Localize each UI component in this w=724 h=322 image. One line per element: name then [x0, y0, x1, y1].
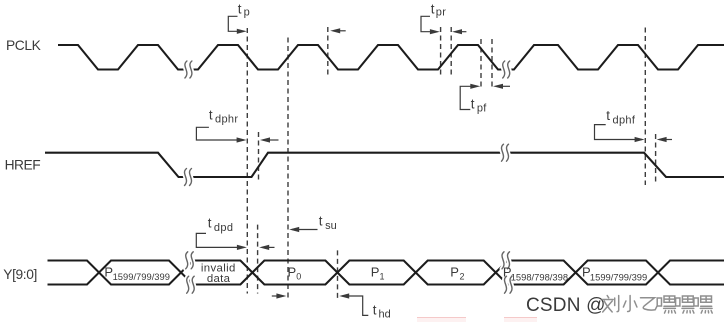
t_pf right arrow — [496, 85, 510, 87]
svg-text:dphr: dphr — [215, 114, 238, 126]
dashed line t_p right (x=327.8) — [327, 27, 329, 77]
Y[9:0] bus rail B (starts bottom) — [48, 261, 724, 285]
svg-text:0: 0 — [296, 271, 301, 281]
svg-text:1599/799/399: 1599/799/399 — [113, 271, 170, 282]
watermark CJK glyph HEI 3 (drawn) — [694, 296, 712, 313]
svg-text:Y[9:0]: Y[9:0] — [3, 267, 37, 282]
dashed line t_hd right (x=337.5) — [337, 250, 339, 300]
t_dphf right arrow — [659, 139, 672, 141]
svg-text:P: P — [288, 264, 297, 279]
watermark CJK glyph YI (drawn) — [641, 298, 657, 310]
svg-text:2: 2 — [460, 271, 465, 281]
dashed line t_dphf left (x=645.3) — [644, 28, 646, 186]
watermark CJK glyph XIAO (drawn) — [623, 296, 637, 312]
break mark HREF high — [502, 144, 509, 161]
watermark CJK glyph HEI 1 (drawn) — [657, 296, 675, 313]
t_pr bracket and left arrow — [421, 16, 437, 31]
svg-text:hd: hd — [379, 309, 391, 321]
svg-text:t: t — [209, 107, 213, 122]
svg-text:P: P — [371, 264, 380, 279]
dashed line t_dphr right (x=258.6) — [258, 132, 260, 183]
t_pf bracket and left arrow — [460, 86, 477, 109]
break mark Y bus bottom rail (second) — [505, 276, 513, 293]
pink highlight box 1 (bottom edge) — [417, 317, 466, 322]
t_dpd bracket and left arrow — [196, 233, 244, 247]
svg-text:t: t — [208, 216, 212, 231]
svg-text:t: t — [606, 108, 610, 123]
svg-text:P: P — [450, 264, 459, 279]
svg-text:CSDN @: CSDN @ — [526, 295, 606, 316]
pink highlight box 2 (bottom edge) — [504, 317, 537, 322]
dashed line t_p left / t_dphr left / t_dpd left (x=247) — [246, 28, 248, 294]
t_p bracket and left arrow — [228, 16, 244, 31]
t_dphr right arrow — [263, 139, 279, 141]
PCLK waveform — [58, 45, 724, 70]
dashed line t_dphf right (x=655.6) — [655, 134, 657, 185]
break mark PCLK low (first) — [185, 61, 192, 78]
dashed line t_pr left (x=440.6) — [440, 27, 442, 77]
t_dphr bracket and left arrow — [196, 127, 244, 140]
break mark HREF low — [185, 169, 192, 186]
svg-text:t: t — [373, 302, 377, 317]
svg-text:p: p — [244, 7, 250, 19]
watermark CJK glyph LIU (drawn) — [602, 296, 619, 313]
t_pr right arrow — [455, 31, 467, 33]
HREF waveform — [45, 153, 724, 177]
t_dpd right arrow — [262, 246, 275, 248]
svg-text:dpd: dpd — [214, 222, 233, 234]
dashed line t_su reference / t_hd left (x=288) — [287, 38, 289, 301]
t_hd right arrow and bracket — [342, 296, 368, 315]
break mark Y bus top rail (first) — [186, 252, 194, 269]
svg-text:t: t — [238, 1, 242, 16]
dashed line t_pf left (x=481) — [480, 39, 482, 90]
svg-text:HREF: HREF — [5, 158, 41, 173]
svg-text:t: t — [431, 1, 435, 16]
svg-text:su: su — [325, 220, 337, 232]
svg-text:data: data — [207, 273, 231, 285]
svg-text:t: t — [471, 96, 475, 111]
t_p right arrow — [333, 30, 346, 32]
svg-text:t: t — [319, 214, 323, 229]
t_dphf bracket and left arrow — [595, 125, 642, 140]
watermark CJK glyph HEI 2 (drawn) — [676, 296, 694, 313]
svg-text:PCLK: PCLK — [6, 38, 42, 53]
svg-text:pf: pf — [477, 103, 487, 115]
break mark PCLK low (second) — [503, 61, 510, 78]
dashed line t_dpd right (x=257.6) — [257, 225, 259, 294]
t_hd left arrow — [272, 295, 284, 297]
Y[9:0] bus rail A (starts top) — [48, 261, 724, 285]
svg-text:1598/798/398: 1598/798/398 — [511, 271, 568, 282]
svg-text:1599/799/399: 1599/799/399 — [590, 271, 647, 282]
dashed line t_pr right (x=451.2) — [450, 27, 452, 77]
dashed line t_pf right (x=492) — [491, 39, 493, 90]
break mark Y bus bottom rail (first) — [187, 276, 195, 293]
break mark Y bus top rail (second) — [502, 252, 510, 269]
svg-text:1: 1 — [380, 271, 385, 281]
svg-text:dphf: dphf — [613, 114, 636, 126]
svg-text:pr: pr — [436, 7, 446, 19]
t_su arrow — [292, 229, 318, 231]
